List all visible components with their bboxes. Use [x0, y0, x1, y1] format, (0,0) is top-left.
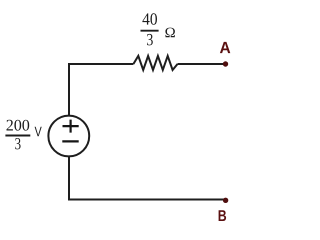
terminal B label	[219, 210, 227, 221]
resistor R1 (40/3 ohm) zigzag body	[133, 56, 177, 70]
wire: from resistor left end to top-left corner, down to voltage source top	[69, 64, 133, 116]
terminal A label	[220, 42, 230, 53]
source unit "V"	[35, 127, 42, 137]
wire: from voltage source bottom, down and right to terminal B	[69, 156, 226, 199]
source value denominator "3"	[15, 138, 20, 149]
voltage source minus sign	[62, 140, 78, 142]
resistor value numerator "40"	[142, 13, 157, 24]
resistor unit "ohm"	[165, 28, 175, 38]
terminal B dot	[223, 198, 228, 203]
voltage source plus sign	[63, 120, 79, 133]
voltage source V1 circle	[48, 116, 89, 157]
resistor value fraction bar	[141, 30, 159, 32]
source value fraction bar	[5, 135, 30, 137]
wire: from resistor right end to terminal A	[178, 63, 226, 65]
resistor value denominator "3"	[147, 34, 153, 46]
terminal A dot	[223, 61, 228, 66]
source value numerator "200"	[7, 120, 30, 131]
